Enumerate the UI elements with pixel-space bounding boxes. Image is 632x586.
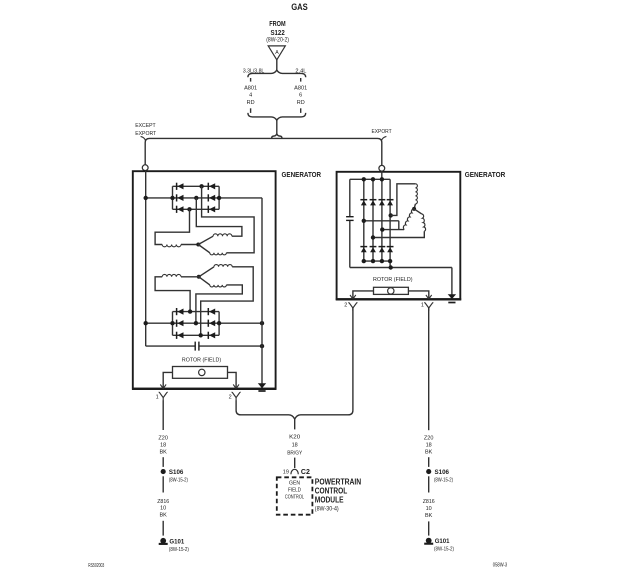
svg-text:Z816: Z816 — [423, 499, 435, 505]
svg-text:G101: G101 — [169, 539, 184, 546]
svg-text:CONTROL: CONTROL — [315, 486, 348, 495]
svg-text:GENERATOR: GENERATOR — [282, 172, 322, 179]
svg-text:(8W-15-2): (8W-15-2) — [434, 547, 454, 553]
svg-text:Z20: Z20 — [158, 435, 168, 441]
svg-text:BK: BK — [425, 513, 433, 519]
svg-text:BK: BK — [425, 449, 433, 455]
svg-text:058W-3: 058W-3 — [493, 563, 508, 569]
svg-text:GEN: GEN — [289, 481, 300, 487]
svg-text:(8W-15-2): (8W-15-2) — [169, 477, 188, 483]
svg-text:3.3L/3.8L: 3.3L/3.8L — [243, 68, 264, 74]
svg-text:A801: A801 — [244, 85, 257, 91]
svg-text:19: 19 — [283, 470, 289, 476]
svg-text:ROTOR (FIELD): ROTOR (FIELD) — [373, 277, 413, 283]
svg-text:10: 10 — [426, 506, 432, 512]
svg-text:(8W-15-2): (8W-15-2) — [434, 478, 453, 484]
svg-text:(8W-20-2): (8W-20-2) — [266, 38, 289, 44]
svg-text:A801: A801 — [294, 85, 307, 91]
svg-text:(8W-15-2): (8W-15-2) — [169, 547, 189, 553]
svg-text:6: 6 — [299, 93, 302, 99]
svg-text:S106: S106 — [169, 469, 184, 476]
svg-text:2: 2 — [344, 303, 347, 309]
svg-text:2: 2 — [229, 394, 232, 400]
svg-text:A: A — [275, 50, 279, 56]
svg-text:S122: S122 — [270, 30, 284, 37]
svg-text:BR/GY: BR/GY — [287, 450, 302, 456]
svg-text:MODULE: MODULE — [315, 495, 344, 504]
svg-text:FIELD: FIELD — [288, 488, 301, 494]
svg-text:EXCEPT: EXCEPT — [135, 123, 156, 129]
svg-text:GAS: GAS — [291, 2, 308, 12]
svg-text:GENERATOR: GENERATOR — [465, 172, 506, 179]
svg-text:G101: G101 — [435, 538, 450, 545]
svg-text:C2: C2 — [301, 469, 310, 476]
svg-text:K20: K20 — [289, 434, 300, 440]
svg-text:BK: BK — [160, 513, 168, 519]
svg-text:Z816: Z816 — [157, 499, 169, 505]
svg-text:CONTROL: CONTROL — [285, 495, 304, 501]
svg-text:10: 10 — [160, 506, 166, 512]
svg-text:Z20: Z20 — [424, 435, 434, 441]
svg-text:4: 4 — [249, 93, 252, 99]
svg-text:18: 18 — [292, 443, 298, 449]
svg-text:1: 1 — [421, 303, 424, 309]
svg-text:FROM: FROM — [269, 21, 286, 28]
svg-text:(8W-30-4): (8W-30-4) — [315, 507, 339, 513]
svg-text:EXPORT: EXPORT — [135, 131, 157, 137]
svg-text:2.4L: 2.4L — [295, 68, 306, 74]
svg-text:ROTOR (FIELD): ROTOR (FIELD) — [182, 357, 221, 363]
svg-text:RD: RD — [247, 100, 255, 106]
svg-text:EXPORT: EXPORT — [372, 129, 393, 135]
svg-text:18: 18 — [160, 442, 166, 448]
svg-text:18: 18 — [426, 442, 432, 448]
svg-text:RD: RD — [297, 100, 305, 106]
svg-text:1: 1 — [156, 394, 159, 400]
svg-text:BK: BK — [160, 449, 168, 455]
svg-text:POWERTRAIN: POWERTRAIN — [315, 477, 362, 486]
svg-text:RS502003: RS502003 — [88, 563, 104, 569]
svg-text:S106: S106 — [435, 469, 450, 476]
